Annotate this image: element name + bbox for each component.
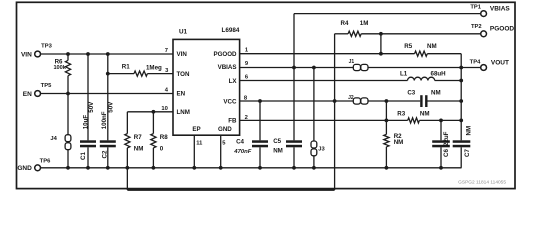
svg-text:68uH: 68uH xyxy=(431,70,447,77)
svg-text:VIN: VIN xyxy=(21,51,32,58)
svg-text:J3: J3 xyxy=(318,147,325,153)
svg-text:PGOOD: PGOOD xyxy=(213,51,237,58)
svg-text:PGOOD: PGOOD xyxy=(490,26,515,33)
svg-text:C4: C4 xyxy=(236,138,244,145)
svg-text:J2: J2 xyxy=(348,95,354,101)
svg-text:LNM: LNM xyxy=(177,109,190,116)
svg-text:10: 10 xyxy=(161,106,167,112)
svg-text:VIN: VIN xyxy=(177,51,188,58)
svg-text:NM: NM xyxy=(466,126,473,136)
svg-text:L6984: L6984 xyxy=(222,27,240,34)
svg-text:50V: 50V xyxy=(107,101,114,113)
svg-text:NM: NM xyxy=(431,90,441,97)
svg-text:R1: R1 xyxy=(122,64,130,71)
svg-text:100k: 100k xyxy=(53,65,66,71)
svg-text:1Meg: 1Meg xyxy=(146,64,162,71)
svg-text:NM: NM xyxy=(420,111,430,118)
svg-text:NM: NM xyxy=(134,145,144,152)
svg-text:EP: EP xyxy=(192,126,200,133)
svg-text:GND: GND xyxy=(17,165,32,172)
svg-text:TP1: TP1 xyxy=(470,4,481,10)
svg-text:7: 7 xyxy=(165,48,168,54)
svg-text:LX: LX xyxy=(229,78,238,85)
svg-text:10uF: 10uF xyxy=(83,115,90,130)
svg-text:EN: EN xyxy=(23,91,32,98)
svg-text:470nF: 470nF xyxy=(233,149,251,155)
svg-text:TP6: TP6 xyxy=(40,158,51,164)
svg-text:TP4: TP4 xyxy=(470,60,481,66)
svg-text:11: 11 xyxy=(196,140,203,146)
svg-text:C6: C6 xyxy=(443,149,450,157)
svg-text:C1: C1 xyxy=(80,152,87,160)
svg-text:C7: C7 xyxy=(464,149,471,157)
svg-text:VOUT: VOUT xyxy=(491,60,509,67)
svg-text:22uF: 22uF xyxy=(443,131,450,146)
svg-text:R7: R7 xyxy=(134,134,142,141)
svg-text:1M: 1M xyxy=(360,20,369,27)
svg-text:U1: U1 xyxy=(179,29,188,36)
svg-text:NM: NM xyxy=(273,147,283,154)
svg-text:NM: NM xyxy=(394,139,404,146)
svg-text:2: 2 xyxy=(245,115,248,121)
svg-text:C3: C3 xyxy=(407,90,415,97)
svg-text:GND: GND xyxy=(218,126,232,133)
svg-text:VBIAS: VBIAS xyxy=(218,64,237,71)
svg-text:R5: R5 xyxy=(404,43,412,50)
svg-text:L1: L1 xyxy=(400,70,408,77)
svg-text:J4: J4 xyxy=(50,136,57,142)
svg-text:R8: R8 xyxy=(160,134,168,141)
svg-text:R4: R4 xyxy=(341,20,349,27)
svg-text:C5: C5 xyxy=(273,138,281,145)
svg-text:NM: NM xyxy=(427,43,437,50)
svg-text:VCC: VCC xyxy=(223,98,237,105)
svg-text:VBIAS: VBIAS xyxy=(490,6,511,13)
svg-text:TON: TON xyxy=(177,71,190,78)
svg-text:GSPG2 11814 114055: GSPG2 11814 114055 xyxy=(458,180,506,186)
svg-text:TP2: TP2 xyxy=(471,24,482,30)
svg-text:100nF: 100nF xyxy=(101,111,108,129)
svg-text:EN: EN xyxy=(177,91,186,98)
svg-text:J1: J1 xyxy=(349,59,355,65)
svg-text:R3: R3 xyxy=(397,111,405,118)
svg-text:50V: 50V xyxy=(88,101,95,113)
svg-text:0: 0 xyxy=(160,145,164,152)
svg-text:TP5: TP5 xyxy=(41,83,52,89)
svg-text:C2: C2 xyxy=(102,150,109,158)
svg-text:FB: FB xyxy=(228,118,237,125)
svg-text:TP3: TP3 xyxy=(41,43,52,49)
